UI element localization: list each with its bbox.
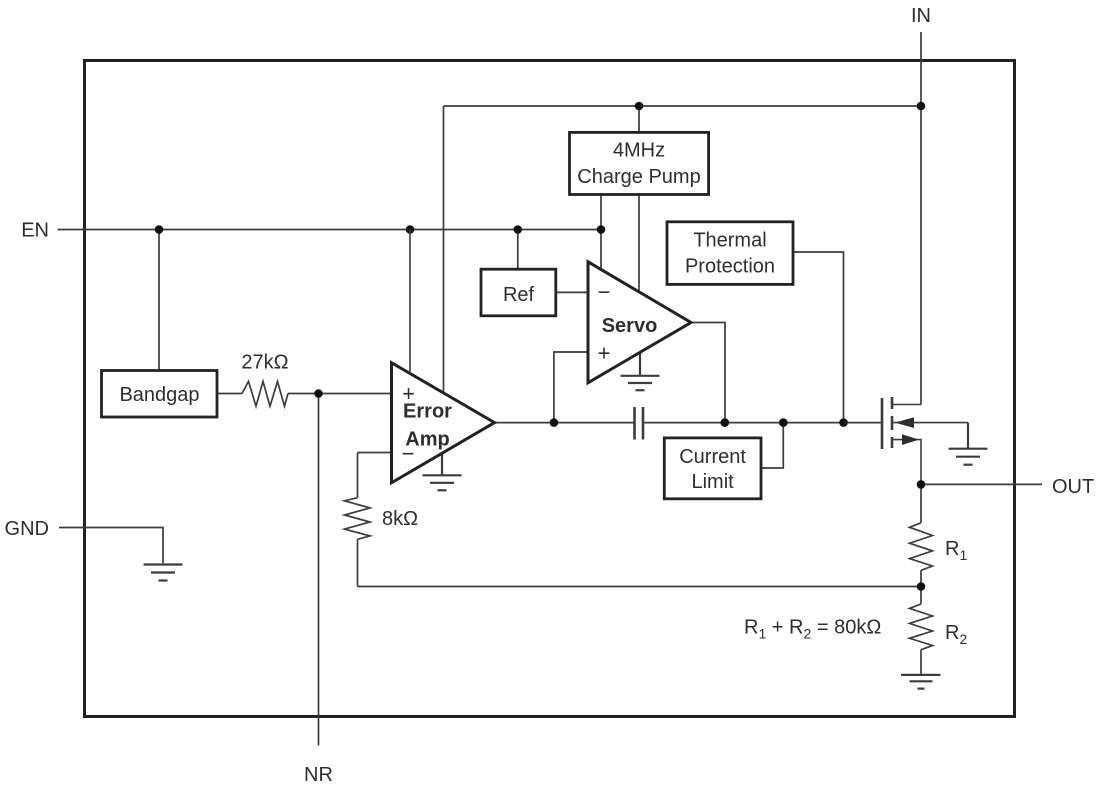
svg-text:NR: NR xyxy=(304,764,333,786)
svg-text:Ref: Ref xyxy=(503,284,535,306)
svg-text:EN: EN xyxy=(21,220,49,242)
svg-text:GND: GND xyxy=(5,518,49,540)
svg-text:−: − xyxy=(402,441,415,466)
svg-text:Servo: Servo xyxy=(602,315,658,337)
svg-text:OUT: OUT xyxy=(1052,476,1094,498)
svg-text:+: + xyxy=(402,381,415,406)
svg-text:8kΩ: 8kΩ xyxy=(382,508,418,530)
svg-text:27kΩ: 27kΩ xyxy=(241,352,288,374)
svg-text:Protection: Protection xyxy=(685,256,775,278)
svg-text:Limit: Limit xyxy=(691,471,734,493)
svg-text:Bandgap: Bandgap xyxy=(119,384,199,406)
svg-text:4MHz: 4MHz xyxy=(613,140,665,162)
svg-text:Thermal: Thermal xyxy=(693,230,766,252)
svg-text:Current: Current xyxy=(679,446,746,468)
svg-text:IN: IN xyxy=(911,5,931,27)
svg-text:+: + xyxy=(598,341,611,366)
svg-text:Charge Pump: Charge Pump xyxy=(577,166,700,188)
svg-text:−: − xyxy=(598,280,611,305)
